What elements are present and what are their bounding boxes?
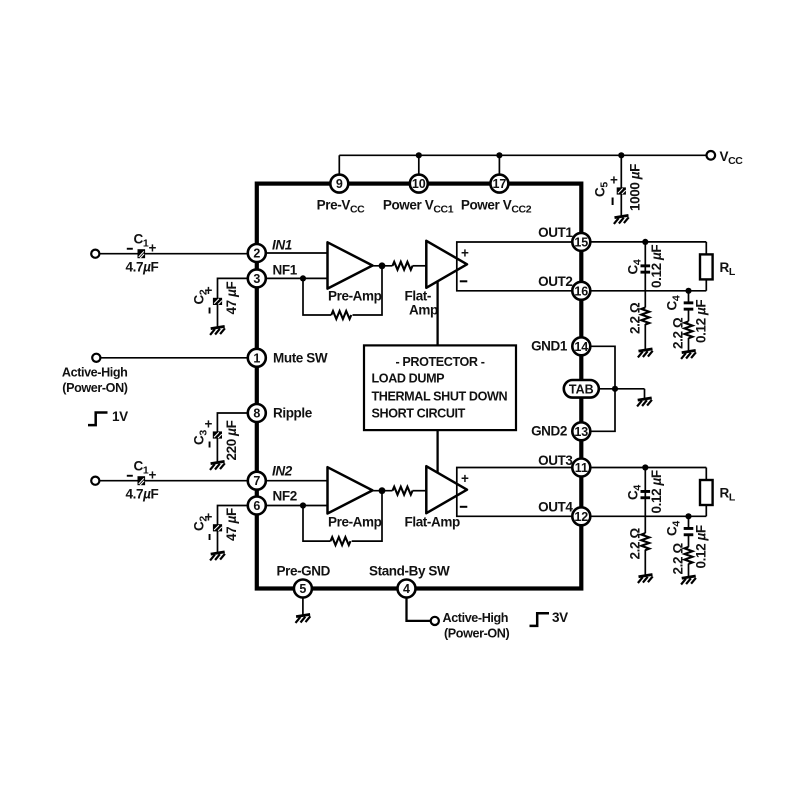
svg-text:2.2 Ω: 2.2 Ω — [671, 317, 686, 349]
svg-text:220 µF: 220 µF — [224, 420, 239, 460]
ground zobel A — [638, 349, 653, 358]
node TAB bus junction — [612, 386, 618, 392]
pin 7 — [248, 472, 266, 490]
svg-text:17: 17 — [492, 177, 506, 191]
svg-text:4: 4 — [403, 582, 410, 596]
wire resistor to flat-amp 2 — [413, 490, 427, 492]
wire NF1 to preamp — [266, 277, 328, 279]
capacitor C2 lower branch wire — [218, 506, 249, 554]
svg-text:NF2: NF2 — [273, 489, 297, 504]
wire protector to flat-amp 1 — [436, 281, 438, 346]
node OUT3 zobel junction — [642, 464, 648, 470]
wire feedback 2 — [303, 491, 382, 541]
svg-text:NF1: NF1 — [273, 263, 298, 278]
svg-text:Amp: Amp — [409, 303, 438, 318]
svg-text:+: + — [610, 173, 618, 188]
wire pin5 ground — [302, 598, 304, 616]
label C2 minus — [209, 308, 211, 314]
op-amp Flat-Amp 2 — [426, 466, 467, 513]
svg-text:4.7µF: 4.7µF — [126, 260, 159, 275]
svg-text:Flat-Amp: Flat-Amp — [405, 515, 460, 530]
op-amp Pre-Amp 2 — [328, 467, 373, 513]
wire riser pin 10 — [418, 155, 420, 183]
label C5 minus — [612, 198, 614, 206]
wire riser pin 9 — [338, 155, 340, 183]
pin 16 — [572, 282, 590, 300]
wire input 2 — [100, 480, 248, 482]
wire protector to flat-amp 2 — [436, 430, 438, 473]
wire feedback 1 — [303, 266, 382, 315]
capacitor C3 branch wire — [217, 413, 248, 463]
svg-text:Pre-Amp: Pre-Amp — [328, 289, 382, 304]
wire IN2 to preamp — [266, 480, 328, 482]
zobel A2 wire — [644, 468, 646, 576]
svg-text:OUT4: OUT4 — [538, 500, 573, 515]
svg-text:1: 1 — [253, 351, 260, 365]
svg-text:1V: 1V — [112, 409, 128, 424]
svg-text:47 µF: 47 µF — [224, 508, 239, 541]
terminal mute — [92, 354, 100, 362]
wire RL top — [705, 242, 707, 255]
svg-text:- PROTECTOR -: - PROTECTOR - — [395, 355, 484, 369]
svg-text:+: + — [149, 241, 157, 256]
wire resistor to flat-amp 1 — [413, 265, 427, 267]
node OUT2 zobel junction — [685, 288, 691, 294]
wire preamp2 output — [373, 490, 393, 492]
capacitor C4 zobel B — [684, 301, 694, 310]
pin 12 — [572, 507, 590, 525]
capacitor C1 (input 1) — [138, 249, 146, 258]
terminal input 2 — [91, 477, 99, 485]
svg-text:0.12 µF: 0.12 µF — [694, 300, 709, 343]
node OUT4 zobel junction — [685, 513, 691, 519]
svg-text:+: + — [461, 246, 469, 261]
wire pin4 standby — [407, 598, 431, 621]
pin 11 — [572, 459, 590, 477]
pin 17 — [490, 175, 508, 193]
svg-text:IN1: IN1 — [272, 238, 292, 253]
svg-text:+: + — [461, 471, 469, 486]
wire preamp1 output — [373, 265, 393, 267]
terminal VCC — [707, 151, 716, 160]
ground TAB — [637, 398, 652, 407]
svg-text:11: 11 — [575, 461, 588, 475]
capacitor C4 zobel B2 — [684, 527, 694, 536]
node NF2 junction — [300, 502, 306, 508]
power block bridge 2 — [457, 468, 573, 517]
terminal input 1 — [91, 250, 99, 258]
pin 1 — [248, 349, 266, 367]
svg-text:6: 6 — [253, 499, 260, 513]
ground pin5 — [296, 614, 311, 623]
pin 13 — [572, 422, 590, 440]
label C1 minus — [127, 248, 133, 250]
svg-text:Ripple: Ripple — [273, 406, 313, 421]
svg-text:2.2 Ω: 2.2 Ω — [628, 302, 643, 334]
wire OUT4 — [590, 515, 706, 517]
capacitor C3 — [213, 431, 222, 438]
svg-text:GND2: GND2 — [531, 424, 567, 439]
svg-text:OUT1: OUT1 — [538, 225, 573, 240]
TAB — [564, 380, 599, 398]
svg-text:OUT3: OUT3 — [538, 453, 573, 468]
svg-text:2.2 Ω: 2.2 Ω — [671, 543, 686, 575]
svg-text:12: 12 — [574, 510, 588, 524]
svg-text:47 µF: 47 µF — [224, 282, 239, 315]
wire pin14 to gnd bus — [590, 346, 615, 431]
ground zobel A2 — [638, 575, 653, 584]
ground zobel B — [681, 350, 696, 359]
pin 9 — [330, 175, 348, 193]
ground C5 — [614, 215, 629, 224]
svg-text:Pre-GND: Pre-GND — [277, 564, 331, 579]
wire NF2 to preamp — [266, 505, 328, 507]
svg-text:14: 14 — [574, 340, 588, 354]
label C3 minus — [209, 442, 211, 448]
svg-text:3: 3 — [253, 272, 260, 286]
svg-text:2.2 Ω: 2.2 Ω — [628, 528, 643, 560]
zobel B2 wire — [688, 516, 690, 577]
node NF1 junction — [300, 275, 306, 281]
svg-text:0.12 µF: 0.12 µF — [694, 525, 709, 568]
svg-text:SHORT CIRCUIT: SHORT CIRCUIT — [372, 407, 466, 421]
pin 5 — [294, 580, 312, 598]
resistor 2.2ohm zobel A — [641, 308, 649, 325]
capacitor C2 upper branch wire — [218, 278, 249, 327]
wire OUT1 — [590, 241, 706, 243]
resistor 2.2ohm zobel A2 — [641, 533, 649, 550]
capacitor C4 zobel A2 — [641, 490, 651, 499]
capacitor C4 zobel A — [641, 264, 651, 273]
zobel B wire — [688, 291, 690, 352]
svg-text:+: + — [205, 283, 213, 298]
svg-text:+: + — [149, 468, 157, 483]
capacitor C2 upper — [213, 298, 222, 305]
label C2 lower minus — [209, 534, 211, 540]
svg-text:+: + — [205, 417, 213, 432]
svg-text:IN2: IN2 — [272, 464, 293, 479]
symbol step 3V — [530, 613, 550, 626]
IC package box — [257, 184, 582, 589]
capacitor C5 wire — [620, 155, 622, 216]
svg-text:5: 5 — [299, 582, 306, 596]
svg-text:+: + — [205, 510, 213, 525]
node junction at pin10 riser — [416, 152, 422, 158]
svg-text:(Power-ON): (Power-ON) — [444, 626, 509, 640]
ground C2 lower — [210, 552, 225, 561]
label C1 lower minus — [127, 475, 133, 477]
svg-text:Mute SW: Mute SW — [273, 351, 328, 366]
pin 8 — [248, 404, 266, 422]
node junction at C5 branch — [618, 152, 624, 158]
label bridge2 minus — [460, 506, 468, 508]
wire mute — [101, 357, 248, 359]
svg-text:Active-High: Active-High — [62, 365, 128, 379]
node preamp2 output junction — [379, 487, 386, 494]
label bridge1 minus — [460, 280, 468, 282]
pin 15 — [572, 233, 590, 251]
svg-text:0.12 µF: 0.12 µF — [649, 245, 664, 288]
wire VCC rail — [339, 154, 706, 156]
resistor RL 1 — [700, 254, 713, 279]
svg-text:7: 7 — [253, 474, 260, 488]
wire riser pin 17 — [498, 155, 500, 183]
wire IN1 to preamp — [266, 252, 328, 254]
pin 2 — [248, 244, 266, 262]
node preamp1 output junction — [379, 262, 386, 269]
wire RL2 bottom — [705, 505, 707, 516]
svg-text:4.7µF: 4.7µF — [126, 487, 159, 502]
resistor feedback 1 — [331, 311, 351, 319]
power block bridge 1 — [457, 242, 573, 291]
svg-text:13: 13 — [574, 425, 588, 439]
svg-text:10: 10 — [412, 177, 426, 191]
pin 14 — [572, 337, 590, 355]
svg-text:GND1: GND1 — [531, 339, 568, 354]
svg-text:9: 9 — [336, 177, 343, 191]
svg-text:TAB: TAB — [569, 382, 594, 396]
svg-text:(Power-ON): (Power-ON) — [62, 381, 127, 395]
resistor series 1 — [393, 262, 413, 270]
symbol step 1V — [88, 413, 108, 426]
wire TAB to gnd bus — [599, 388, 645, 390]
capacitor C5 — [617, 187, 626, 194]
pin 4 — [398, 580, 416, 598]
pin 6 — [248, 497, 266, 515]
wire input 1 — [100, 253, 248, 255]
node junction at pin17 riser — [496, 152, 502, 158]
ground C3 — [210, 461, 225, 470]
wire RL2 top — [705, 468, 707, 481]
pin 10 — [410, 175, 428, 193]
svg-text:16: 16 — [574, 284, 588, 298]
svg-text:THERMAL SHUT DOWN: THERMAL SHUT DOWN — [372, 390, 508, 404]
svg-text:8: 8 — [253, 407, 260, 421]
svg-text:1000 µF: 1000 µF — [628, 164, 643, 211]
resistor feedback 2 — [331, 537, 351, 545]
protector box — [364, 345, 516, 430]
svg-text:OUT2: OUT2 — [538, 274, 572, 289]
node OUT1 zobel junction — [642, 239, 648, 245]
pin 3 — [248, 269, 266, 287]
svg-text:3V: 3V — [552, 610, 568, 625]
svg-text:Stand-By SW: Stand-By SW — [369, 564, 450, 579]
op-amp Pre-Amp 1 — [328, 242, 373, 288]
svg-text:Flat-: Flat- — [405, 289, 432, 304]
wire OUT3 — [590, 467, 706, 469]
op-amp Flat-Amp 1 — [426, 241, 467, 288]
capacitor C1 (input 2) — [138, 476, 146, 485]
wire OUT2 — [590, 290, 706, 292]
resistor 2.2ohm zobel B — [685, 321, 693, 338]
svg-text:0.12 µF: 0.12 µF — [649, 470, 664, 513]
wire gnd stub — [644, 389, 646, 399]
resistor series 2 — [393, 487, 413, 495]
svg-text:15: 15 — [574, 235, 588, 249]
svg-text:Active-High: Active-High — [443, 611, 509, 625]
ground zobel B2 — [681, 576, 696, 585]
zobel A wire — [644, 242, 646, 350]
ground C2 upper — [210, 326, 225, 335]
resistor RL 2 — [700, 480, 713, 505]
wire RL bottom — [705, 279, 707, 290]
svg-text:Pre-Amp: Pre-Amp — [328, 515, 382, 530]
resistor 2.2ohm zobel B2 — [685, 547, 693, 564]
terminal standby — [431, 617, 439, 625]
svg-text:2: 2 — [253, 247, 260, 261]
capacitor C2 lower — [213, 524, 222, 531]
svg-text:LOAD DUMP: LOAD DUMP — [372, 372, 445, 386]
